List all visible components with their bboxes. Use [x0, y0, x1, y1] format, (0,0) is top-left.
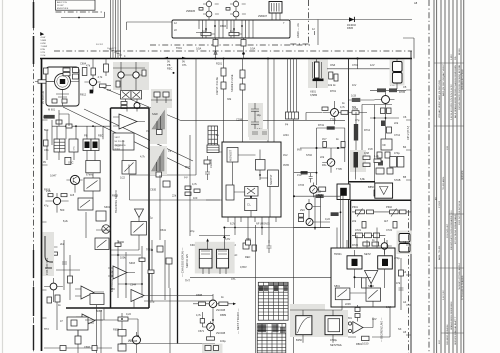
- svg-text:C208: C208: [236, 118, 243, 122]
- W1 core: [352, 259, 358, 266]
- svg-text:T610: T610: [146, 248, 152, 252]
- resistors bottom R323: [363, 242, 370, 246]
- transistor T601: [206, 1, 211, 6]
- bus pin ticks: [109, 49, 122, 55]
- comps below motor2: [66, 124, 72, 128]
- svg-text:12V: 12V: [43, 115, 48, 119]
- interior small res: [115, 243, 121, 246]
- wires central: [111, 140, 160, 250]
- svg-text:R741: R741: [318, 123, 325, 127]
- elco leads: [396, 59, 398, 90]
- A829 enclosure dash-dot right: [290, 0, 309, 44]
- svg-text:TR 402 ABGL: TR 402 ABGL: [442, 176, 445, 190]
- resistor row R321: [364, 233, 371, 238]
- resistor R301: [329, 72, 333, 79]
- IC internal wires: [233, 150, 271, 218]
- T702 arrow: [330, 161, 333, 164]
- crystal gray patch: [308, 60, 328, 89]
- resistor R330 vertical: [362, 278, 366, 288]
- small comps under IC2: [252, 245, 257, 251]
- wire x196 top link: [195, 59, 197, 109]
- wire mid bottom: [128, 319, 138, 336]
- K2 arrow up: [223, 236, 225, 249]
- svg-text:4,7k: 4,7k: [98, 75, 104, 79]
- svg-text:SICHERHEITSTEILE: SICHERHEITSTEILE: [462, 69, 464, 90]
- motor M1: [55, 74, 71, 90]
- svg-text:5,6V 11,4V 0,65V 2,2V 8,2V 0,1: 5,6V 11,4V 0,65V 2,2V 8,2V 0,1V 3V: [451, 84, 453, 120]
- svg-text:C666: C666: [84, 345, 91, 349]
- S5 lever: [97, 240, 107, 248]
- texture labels top: [124, 9, 268, 58]
- bottom-left risers: [97, 305, 102, 353]
- wire y320: [85, 319, 118, 321]
- cap C202: [251, 118, 259, 132]
- sub-block bold bottom: [351, 200, 412, 248]
- wire drop 3: [267, 59, 269, 143]
- pin drop dots: [234, 227, 236, 229]
- svg-text:6,8k: 6,8k: [360, 177, 366, 181]
- wire dot: [78, 17, 80, 19]
- svg-text:S702: S702: [306, 153, 313, 157]
- dark res y172: [301, 171, 308, 175]
- TB arrow: [308, 220, 311, 223]
- svg-text:2 CH: 2 CH: [41, 55, 46, 57]
- S331 lever: [368, 290, 378, 299]
- K1 divider: [199, 251, 212, 258]
- pot P303: [390, 210, 399, 214]
- svg-text:OSC: OSC: [68, 161, 74, 165]
- connector bus wires: [288, 59, 297, 113]
- small box under strips: [163, 181, 170, 187]
- head sw resistor pair X1: [121, 91, 132, 100]
- switch box S2: [78, 198, 93, 210]
- K1 arrow up: [207, 240, 209, 249]
- svg-text:2SC945: 2SC945: [216, 308, 226, 312]
- mid cluster wires: [294, 195, 343, 248]
- svg-text:0,65V: 0,65V: [451, 54, 453, 60]
- R212 wires: [202, 312, 207, 327]
- transistor T101 leads: [84, 59, 100, 93]
- IC inner: monostable: [227, 148, 238, 163]
- sawtooth 1: [152, 111, 165, 130]
- IC inner: gate: [245, 186, 258, 196]
- rail drops: [57, 126, 103, 139]
- chain small rect: [374, 190, 380, 196]
- svg-text:P601: P601: [352, 205, 359, 209]
- comp column2: [355, 314, 360, 318]
- res pair under X2: [121, 106, 127, 109]
- resistor row R322: [373, 233, 379, 238]
- comp column: [355, 308, 360, 312]
- svg-text:T701: T701: [330, 118, 336, 122]
- svg-text:4V7: 4V7: [322, 137, 327, 141]
- bottom transistor T107: [133, 336, 141, 344]
- svg-text:STAB: STAB: [394, 178, 401, 182]
- svg-text:1,2k: 1,2k: [374, 154, 380, 158]
- W2 core: [382, 259, 388, 266]
- trimmer boxes in gz2: [154, 92, 160, 97]
- resistor R104: [100, 84, 107, 88]
- mid cluster stacked boxes: [299, 214, 304, 218]
- svg-text:10 9 8 7 2: 10 9 8 7 2: [107, 48, 117, 50]
- bold chassis wire x179.8: [177, 59, 179, 344]
- transistor T304: [381, 243, 388, 250]
- chain resistor pair2: [387, 108, 392, 114]
- opamp tri mid right: [113, 266, 127, 279]
- wire drop 2: [242, 59, 244, 143]
- svg-text:OSC: OSC: [74, 145, 76, 150]
- connector block J1 hatched: [269, 2, 282, 14]
- svg-text:TA7060P UPC566H AN214: TA7060P UPC566H AN214: [458, 263, 461, 290]
- T106 res2: [47, 297, 52, 303]
- small res R112: [52, 252, 58, 255]
- chassis dash-dot boundary upper: [54, 50, 412, 52]
- svg-text:C5: C5: [403, 85, 407, 89]
- svg-text:0V65: 0V65: [283, 163, 290, 167]
- IC pin label box: [207, 145, 219, 153]
- svg-text:M 601: M 601: [48, 108, 56, 112]
- dash-dot stub from module: [56, 11, 105, 13]
- zone bottom leads: [203, 268, 226, 274]
- IC inner: servo amp: [226, 185, 234, 200]
- left fold dash emphasis bottom: [33, 250, 35, 350]
- svg-text:C/H 2 (H,T./): C/H 2 (H,T./): [406, 126, 410, 140]
- svg-text:CTL: CTL: [182, 63, 187, 67]
- svg-text:10k 1k: 10k 1k: [328, 83, 336, 87]
- margin wedge mark: [40, 32, 44, 36]
- svg-text:SERVICE MANUAL BLATT 7: SERVICE MANUAL BLATT 7: [454, 316, 457, 345]
- gray patch left lever: [43, 232, 55, 276]
- belt line 1: [63, 107, 190, 169]
- right border pin stubs: [406, 90, 411, 335]
- svg-text:12V: 12V: [370, 63, 375, 67]
- svg-text:560: 560: [60, 208, 65, 212]
- svg-text:2k2: 2k2: [60, 242, 65, 246]
- motor unit outline: [46, 67, 79, 106]
- stub labels: [403, 85, 407, 334]
- resistor R213: [207, 337, 215, 340]
- chain junction dots: [385, 117, 387, 119]
- bottom cluster resistor2: [118, 330, 126, 337]
- resistor R340: [362, 336, 369, 340]
- X3 dark square: [85, 142, 90, 149]
- left page edge shadow: [2, 0, 4, 353]
- mid cluster transistor TA: [306, 203, 312, 209]
- tri mid leads: [108, 268, 135, 276]
- S330 lever: [338, 290, 348, 298]
- resistor R314: [374, 159, 381, 163]
- loop junction dots: [316, 147, 318, 149]
- svg-text:A829 — 2A: A829 — 2A: [296, 23, 300, 38]
- svg-text:N X 9/2: N X 9/2: [96, 44, 104, 46]
- svg-text:0,5A: 0,5A: [196, 47, 202, 51]
- bottom strip wire: [44, 347, 112, 349]
- svg-text:B856: B856: [368, 185, 375, 189]
- resistor R305 chain: [341, 111, 348, 115]
- wire bottom left risers: [57, 302, 78, 353]
- IC pin ticks bottom: [228, 217, 276, 243]
- gray zone 2: [151, 89, 172, 108]
- svg-text:1V8: 1V8: [368, 147, 373, 151]
- P301 arrow: [357, 209, 363, 217]
- svg-text:33k: 33k: [227, 97, 232, 101]
- transistor T201: [209, 300, 217, 308]
- svg-text:NF PULSE: NF PULSE: [115, 141, 126, 143]
- pot P302: [367, 210, 374, 214]
- mid column wire: [165, 240, 169, 300]
- margin res: [399, 270, 404, 276]
- transistor T103: [133, 72, 139, 78]
- pot P304: [400, 210, 407, 214]
- elco C320: [399, 234, 410, 243]
- main section top border: [40, 58, 412, 60]
- svg-text:A802 (2S 2087 206) ANT.VERST.: A802 (2S 2087 206) ANT.VERST.: [442, 63, 445, 96]
- S2 lever: [80, 200, 90, 208]
- svg-text:CAPST. PULSE: CAPST. PULSE: [215, 77, 219, 95]
- module box A801 top-left: [56, 0, 96, 10]
- transistor T106: [50, 283, 57, 290]
- mid cluster stacked boxes2: [299, 218, 304, 222]
- resistor R101 on border: [38, 80, 46, 83]
- T105 leads: [48, 240, 58, 258]
- tri circle2: [348, 329, 351, 332]
- svg-text:0,22: 0,22: [120, 176, 126, 180]
- left fold dash-dot line: [33, 0, 35, 353]
- switch S330: [335, 288, 350, 300]
- svg-text:R618: R618: [44, 188, 51, 192]
- T302 emitter arrow: [333, 111, 336, 115]
- resistor R104 lead: [106, 85, 111, 87]
- gray zone cap: [350, 150, 366, 172]
- head drum circle: [102, 225, 110, 233]
- diode D601: [349, 17, 354, 22]
- opamp leads: [113, 117, 145, 126]
- svg-text:4,7k: 4,7k: [196, 313, 202, 317]
- elco C321: [399, 244, 410, 253]
- svg-text:0,047: 0,047: [50, 174, 57, 178]
- svg-text:µPC: µPC: [110, 287, 115, 291]
- opamp tri down: [365, 271, 378, 284]
- svg-text:2SB405: 2SB405: [186, 9, 196, 13]
- divider wire x348: [348, 59, 350, 249]
- chain wires: [348, 112, 367, 114]
- svg-text:C 2102: C 2102: [439, 200, 441, 208]
- main section left border: [41, 59, 43, 352]
- resistor R201: [221, 68, 226, 76]
- svg-text:R633: R633: [112, 194, 119, 198]
- mid column comps2: [166, 258, 172, 264]
- voltage table lower: [257, 324, 286, 353]
- wire y301: [144, 300, 213, 302]
- sawtooth 2 hatch: [157, 156, 161, 171]
- long vertical x255: [255, 225, 257, 353]
- transistor leads: [209, 0, 236, 20]
- svg-text:9V: 9V: [182, 60, 185, 64]
- long wire to right: [181, 120, 345, 122]
- svg-text:B250: B250: [296, 338, 303, 342]
- svg-text:C671: C671: [198, 329, 205, 333]
- svg-text:100µ: 100µ: [220, 339, 226, 343]
- K2 arrowhead: [223, 235, 226, 238]
- chain cap dark: [381, 121, 385, 127]
- S3 lever: [125, 163, 134, 172]
- wire drop 4: [273, 59, 275, 143]
- svg-text:22µ: 22µ: [190, 229, 195, 233]
- transistor T102: [118, 72, 124, 78]
- left col cap: [62, 262, 67, 264]
- svg-text:T601: T601: [176, 46, 182, 50]
- junction dot on feed: [242, 52, 245, 55]
- interior small res3: [148, 270, 154, 273]
- svg-text:100: 100: [193, 196, 198, 200]
- interior small res2: [139, 258, 145, 261]
- wire from IC left: [206, 148, 222, 200]
- small transistor under X: [134, 103, 140, 109]
- right legend rules: [434, 0, 464, 353]
- mass wires: [290, 310, 333, 343]
- vertical x170: [169, 288, 171, 353]
- cap C110: [44, 236, 50, 240]
- right legend rotated text column 1: [436, 48, 465, 345]
- svg-text:0,22: 0,22: [316, 190, 322, 194]
- svg-text:47k: 47k: [86, 64, 91, 68]
- rail pin text cluster: [167, 60, 187, 71]
- triangle down A2: [135, 209, 144, 218]
- rail branch down: [317, 20, 319, 46]
- svg-text:C.L: C.L: [247, 203, 252, 207]
- svg-text:4700µ: 4700µ: [330, 338, 338, 342]
- resistor stack right3: [194, 189, 200, 192]
- svg-text:0,1V 3,5V: 0,1V 3,5V: [443, 290, 445, 300]
- switch box S3 inside block: [122, 161, 136, 175]
- connector hatch bars: [272, 3, 280, 12]
- zone top wire: [199, 228, 330, 236]
- res pair under X: [121, 102, 127, 105]
- C311 leads: [355, 168, 357, 180]
- wires lower right: [294, 277, 391, 337]
- resistor R113: [75, 336, 81, 344]
- crystal base bar: [313, 79, 324, 82]
- svg-text:2SC945: 2SC945: [216, 331, 226, 335]
- bias osc lead: [92, 173, 94, 179]
- svg-text:NF: NF: [383, 143, 387, 147]
- svg-text:C715: C715: [298, 183, 305, 187]
- connector row boxes: [286, 112, 299, 119]
- mini table: [208, 126, 218, 148]
- degauss box2: [325, 316, 343, 335]
- arrow left under rail: [164, 57, 168, 59]
- small comps under IC: [243, 243, 249, 249]
- tri leads: [75, 289, 213, 324]
- elco pair gray right: [397, 231, 413, 255]
- long wire y277.3: [190, 276, 331, 278]
- svg-text:REC: REC: [167, 67, 173, 71]
- svg-text:67kHz: 67kHz: [86, 173, 94, 177]
- dark blob C103: [90, 90, 94, 94]
- junction dots rail: [223, 58, 225, 60]
- bottom gray mass: [290, 304, 348, 337]
- svg-text:OSZ: OSZ: [330, 63, 336, 67]
- svg-text:220V: 220V: [345, 302, 351, 306]
- relay K2: [217, 249, 229, 268]
- resistor R312: [363, 156, 370, 160]
- wires under heads: [126, 99, 138, 112]
- bus of 5 wires: [111, 0, 121, 59]
- svg-text:C6: C6: [403, 115, 407, 119]
- resistor R111: [61, 194, 67, 197]
- arrowhead right: [233, 303, 236, 306]
- T202 arrow: [209, 326, 212, 329]
- junction dot rail left: [215, 58, 217, 60]
- head sw resistor pair X2: [131, 91, 142, 100]
- transistor T202: [207, 323, 215, 331]
- transistor T602: [233, 1, 238, 6]
- svg-text:TP3: TP3: [44, 327, 49, 331]
- left col res: [68, 276, 73, 283]
- svg-text:560: 560: [44, 128, 49, 132]
- IC inner: nachstimm: [268, 170, 279, 187]
- junction dots: [214, 25, 216, 27]
- svg-text:0,150: 0,150: [362, 342, 369, 346]
- head switch box X3: [83, 139, 91, 151]
- opamp tri up2: [82, 314, 95, 327]
- drop from dot: [357, 59, 359, 69]
- junction dot on border: [356, 57, 358, 59]
- lever tip: [45, 267, 52, 269]
- IC junction dots: [250, 196, 252, 198]
- W3 core: [340, 188, 347, 196]
- tall cap leads: [355, 112, 357, 152]
- svg-text:2V1 0V65 4V7: 2V1 0V65 4V7: [447, 223, 449, 238]
- resistor R303 dark: [377, 88, 386, 92]
- voltage table upper: [258, 282, 288, 320]
- gray zone transistors: [113, 62, 149, 90]
- resistor R203: [240, 70, 245, 78]
- resistor R204: [240, 84, 245, 90]
- svg-text:VERT: VERT: [115, 137, 121, 139]
- left IC wires: [207, 156, 209, 166]
- degauss curve: [298, 317, 311, 333]
- opamp tri right: [353, 322, 363, 334]
- rail wire y68.8: [327, 68, 391, 70]
- S1 lever: [87, 181, 98, 189]
- svg-text:9V: 9V: [43, 160, 46, 164]
- dark res on diag: [44, 115, 55, 119]
- dash line right of block: [408, 210, 410, 353]
- resistor R102: [82, 68, 87, 76]
- svg-text:1N60: 1N60: [118, 240, 125, 244]
- svg-text:25V: 25V: [185, 165, 190, 169]
- svg-text:p-p: p-p: [184, 176, 188, 179]
- transformer winding W2: [378, 256, 393, 269]
- sawtooth 2 box: [156, 172, 162, 177]
- svg-text:0,5A: 0,5A: [250, 47, 256, 51]
- box lead: [78, 323, 94, 336]
- svg-text:CTL: CTL: [231, 277, 236, 281]
- junction dot x173: [173, 72, 175, 74]
- chain wires vertical: [362, 104, 386, 183]
- gray waveform strip: [150, 108, 167, 144]
- R210 lead: [193, 303, 198, 305]
- chain resistor R316: [385, 152, 390, 158]
- svg-text:2SC945 2SA733 2SC1815 2SC945Q: 2SC945 2SA733 2SC1815 2SC945Q BC238B: [458, 64, 461, 110]
- svg-text:4,7k: 4,7k: [340, 105, 346, 109]
- svg-text:D605: D605: [347, 26, 354, 30]
- T107 leads: [122, 313, 137, 353]
- IC inner: comparator: [256, 160, 266, 171]
- comps left of IC c1: [205, 166, 210, 180]
- svg-text:8 TA: 8 TA: [41, 48, 46, 51]
